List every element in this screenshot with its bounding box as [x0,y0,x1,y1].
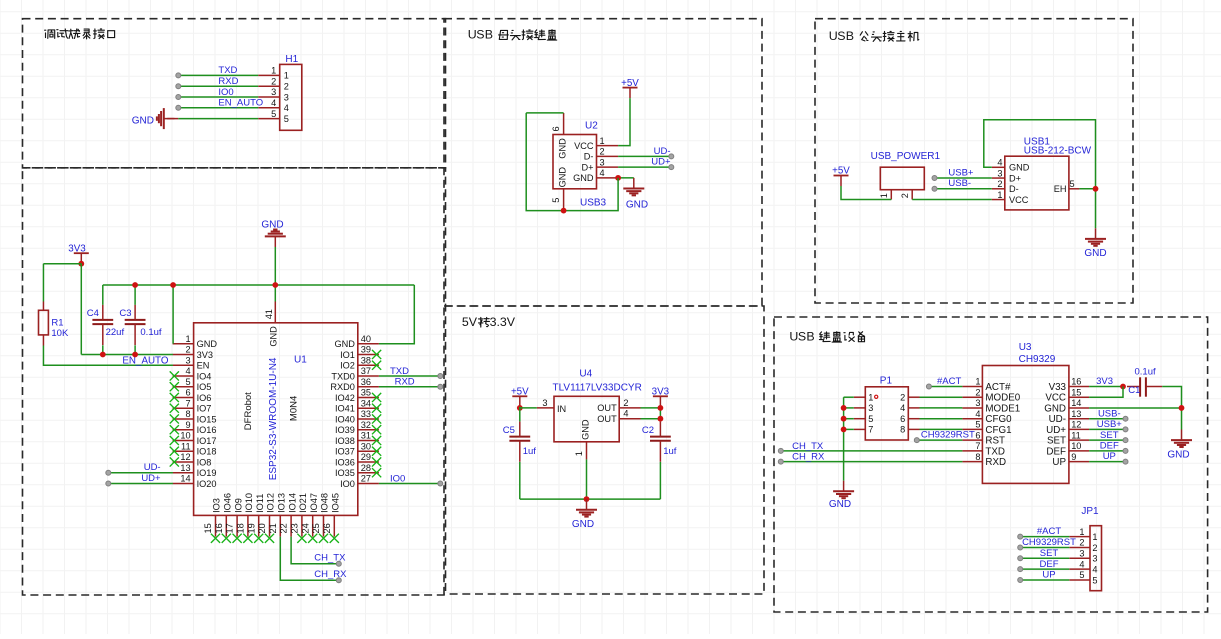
svg-text:USB-: USB- [1098,408,1121,419]
svg-text:IO0: IO0 [390,473,405,484]
svg-text:RXD: RXD [985,457,1006,468]
svg-text:USB3: USB3 [580,198,607,209]
svg-text:2: 2 [271,76,276,86]
svg-text:6: 6 [185,388,190,398]
svg-text:6: 6 [900,414,905,424]
svg-text:3: 3 [284,92,289,102]
svg-text:0.1uf: 0.1uf [140,327,161,338]
svg-text:2: 2 [600,147,605,157]
svg-text:IO20: IO20 [197,479,217,489]
svg-text:11: 11 [1071,430,1081,440]
svg-text:24: 24 [300,523,310,533]
svg-text:TLV1117LV33DCYR: TLV1117LV33DCYR [553,383,642,394]
svg-text:5: 5 [185,377,190,387]
svg-text:C4: C4 [87,308,99,319]
svg-text:35: 35 [361,388,371,398]
svg-text:1: 1 [879,193,889,198]
svg-text:12: 12 [1071,420,1081,430]
svg-text:IO48: IO48 [320,493,330,513]
svg-text:IO7: IO7 [197,404,212,414]
svg-text:IO14: IO14 [287,493,297,513]
svg-text:EH: EH [1054,184,1067,194]
svg-text:38: 38 [361,355,371,365]
svg-text:GND: GND [558,138,568,159]
svg-text:IO35: IO35 [335,468,355,478]
svg-text:USB-: USB- [948,178,971,189]
svg-text:10K: 10K [51,328,69,339]
svg-text:IO46: IO46 [223,493,233,513]
svg-text:SET: SET [1040,548,1059,559]
svg-text:UD+: UD+ [651,157,671,168]
svg-text:3: 3 [185,355,190,365]
svg-text:VCC: VCC [1009,195,1029,205]
svg-text:4: 4 [284,103,289,113]
svg-text:1: 1 [600,136,605,146]
svg-text:CH_RX: CH_RX [792,452,825,463]
svg-text:GND: GND [829,499,851,510]
svg-text:2: 2 [975,387,980,397]
svg-text:GND: GND [261,220,283,231]
svg-text:9: 9 [1071,452,1076,462]
svg-text:U2: U2 [585,121,598,132]
svg-text:5: 5 [551,198,561,203]
svg-text:CH_RX: CH_RX [314,569,347,580]
svg-text:UD+: UD+ [1046,425,1066,436]
svg-text:V: V [507,315,516,329]
svg-text:4: 4 [1092,564,1097,574]
svg-text:21: 21 [268,523,278,533]
svg-text:7: 7 [868,425,873,435]
svg-text:DFRobot: DFRobot [243,392,254,430]
svg-text:10: 10 [1071,441,1081,451]
svg-text:P1: P1 [880,375,893,386]
svg-text:7: 7 [185,398,190,408]
svg-text:CH_TX: CH_TX [792,441,824,452]
svg-text:IO36: IO36 [335,457,355,467]
svg-text:37: 37 [361,366,371,376]
svg-text:MODE1: MODE1 [985,403,1020,414]
svg-text:OUT: OUT [597,414,617,424]
svg-text:3: 3 [271,87,276,97]
svg-text:UP: UP [1042,570,1055,581]
svg-text:IN: IN [557,404,566,414]
svg-text:IO17: IO17 [197,436,217,446]
svg-text:CH9329RST: CH9329RST [1022,537,1076,548]
svg-text:+5V: +5V [511,387,529,398]
svg-text:GND: GND [572,519,594,530]
svg-text:28: 28 [361,463,371,473]
svg-text:9: 9 [185,420,190,430]
svg-text:IO38: IO38 [335,436,355,446]
svg-text:GND: GND [197,339,218,349]
svg-text:GND: GND [334,339,355,349]
svg-text:2: 2 [284,82,289,92]
svg-text:SET: SET [1100,430,1119,441]
svg-text:5: 5 [271,109,276,119]
svg-text:14: 14 [1071,398,1081,408]
svg-text:3V3: 3V3 [1096,376,1113,387]
svg-text:TXD0: TXD0 [331,371,355,381]
svg-text:5: 5 [1092,575,1097,585]
svg-text:3: 3 [1079,549,1084,559]
svg-text:3: 3 [997,168,1002,178]
svg-text:GND: GND [268,326,278,347]
svg-text:2: 2 [623,398,628,408]
svg-text:M0N4: M0N4 [289,396,300,421]
svg-text:U1: U1 [294,355,307,366]
svg-text:1: 1 [975,377,980,387]
svg-text:IO0: IO0 [340,479,355,489]
svg-text:GND: GND [573,173,594,183]
svg-text:RXD: RXD [395,377,415,388]
svg-text:UD-: UD- [144,462,161,473]
svg-text:2: 2 [185,345,190,355]
svg-text:TXD: TXD [985,446,1005,457]
svg-text:30: 30 [361,441,371,451]
svg-text:C1: C1 [1128,385,1140,396]
svg-text:IO39: IO39 [335,425,355,435]
svg-text:4: 4 [1079,559,1084,569]
svg-text:UD-: UD- [1049,414,1066,425]
svg-text:3: 3 [1092,554,1097,564]
svg-text:IO15: IO15 [197,414,217,424]
svg-text:39: 39 [361,345,371,355]
svg-text:DEF: DEF [1100,440,1119,451]
svg-text:0.1uf: 0.1uf [1135,366,1156,377]
svg-text:IO45: IO45 [331,493,341,513]
svg-text:16: 16 [214,523,224,533]
svg-text:H1: H1 [285,54,298,65]
svg-text:TXD: TXD [218,65,237,76]
svg-text:8: 8 [975,452,980,462]
svg-text:USB_POWER1: USB_POWER1 [871,151,941,162]
svg-text:40: 40 [361,334,371,344]
svg-text:#ACT: #ACT [937,376,961,387]
svg-text:C3: C3 [119,308,131,319]
svg-text:5: 5 [975,420,980,430]
svg-text:2: 2 [997,179,1002,189]
svg-text:UP: UP [1103,451,1116,462]
svg-text:36: 36 [361,377,371,387]
svg-text:GND: GND [581,419,591,440]
svg-text:VCC: VCC [574,141,594,151]
svg-text:RST: RST [985,436,1005,447]
svg-text:IO12: IO12 [266,493,276,513]
svg-text:31: 31 [361,431,371,441]
svg-text:D-: D- [584,152,594,162]
svg-text:4: 4 [623,409,628,419]
svg-text:IO42: IO42 [335,393,355,403]
svg-text:1: 1 [1079,527,1084,537]
svg-text:IO10: IO10 [244,493,254,513]
svg-text:IO2: IO2 [340,361,355,371]
svg-text:3V3: 3V3 [68,243,86,254]
svg-text:3: 3 [868,403,873,413]
svg-text:29: 29 [361,452,371,462]
svg-text:1: 1 [185,334,190,344]
svg-text:IO18: IO18 [197,447,217,457]
svg-text:26: 26 [322,523,332,533]
svg-text:5: 5 [284,114,289,124]
svg-text:GND: GND [1044,403,1066,414]
svg-text:3: 3 [542,398,547,408]
svg-text:D+: D+ [581,162,593,172]
svg-text:IO11: IO11 [255,494,265,513]
svg-text:4: 4 [997,158,1002,168]
svg-text:10: 10 [180,431,190,441]
svg-text:IO8: IO8 [197,457,212,467]
svg-text:2: 2 [1079,538,1084,548]
svg-text:15: 15 [203,523,213,533]
svg-text:B: B [485,28,493,42]
svg-text:RXD: RXD [218,76,238,87]
svg-text:4: 4 [271,98,276,108]
svg-text:3V3: 3V3 [197,350,213,360]
svg-text:USB-212-BCW: USB-212-BCW [1024,146,1092,157]
svg-text:MODE0: MODE0 [985,393,1020,404]
svg-text:CH9329RST: CH9329RST [921,430,975,441]
svg-text:C2: C2 [642,425,654,436]
svg-text:IO4: IO4 [197,371,212,381]
svg-text:CH9329: CH9329 [1019,354,1056,365]
svg-text:VCC: VCC [1045,393,1066,404]
svg-text:GND: GND [1167,450,1189,461]
svg-text:ESP32-S3-WROOM-1U-N4: ESP32-S3-WROOM-1U-N4 [268,357,279,480]
svg-text:S: S [476,28,484,42]
svg-text:CFG0: CFG0 [985,414,1012,425]
svg-text:1uf: 1uf [523,446,537,457]
svg-text:IO40: IO40 [335,414,355,424]
svg-text:2: 2 [1092,543,1097,553]
svg-text:4: 4 [975,409,980,419]
svg-text:GND: GND [1009,163,1030,173]
svg-text:4: 4 [900,403,905,413]
svg-text:GND: GND [626,200,648,211]
svg-text:41: 41 [264,309,274,319]
svg-text:IO21: IO21 [298,493,308,513]
svg-text:IO37: IO37 [335,447,355,457]
svg-text:1uf: 1uf [663,446,677,457]
svg-text:23: 23 [290,523,300,533]
svg-text:UP: UP [1052,457,1066,468]
svg-text:19: 19 [246,523,256,533]
svg-text:IO9: IO9 [233,498,243,513]
svg-text:6: 6 [975,430,980,440]
svg-text:IO19: IO19 [197,468,217,478]
svg-text:8: 8 [900,425,905,435]
svg-text:ACT#: ACT# [985,382,1011,393]
svg-text:6: 6 [551,126,561,131]
svg-text:17: 17 [225,523,235,533]
svg-text:GND: GND [1084,248,1106,259]
svg-text:+5V: +5V [832,166,850,177]
svg-text:S: S [798,330,806,344]
svg-text:3V3: 3V3 [652,387,670,398]
svg-text:U4: U4 [579,369,592,380]
svg-text:IO13: IO13 [277,493,287,513]
svg-text:CH_TX: CH_TX [314,553,346,564]
svg-text:20: 20 [257,523,267,533]
svg-text:1: 1 [574,451,584,456]
svg-text:OUT: OUT [597,403,617,413]
svg-text:1: 1 [271,66,276,76]
svg-text:C5: C5 [503,425,515,436]
svg-text:13: 13 [180,463,190,473]
svg-text:EN_AUTO: EN_AUTO [122,356,168,367]
svg-text:3: 3 [600,157,605,167]
svg-text:USB+: USB+ [948,167,974,178]
svg-text:UD+: UD+ [141,473,161,484]
svg-text:5: 5 [1070,179,1075,189]
svg-text:U3: U3 [1019,342,1032,353]
svg-text:D-: D- [1009,184,1019,194]
svg-text:16: 16 [1071,377,1081,387]
svg-text:DEF: DEF [1040,559,1059,570]
svg-text:33: 33 [361,409,371,419]
svg-text:5: 5 [1079,570,1084,580]
svg-text:2: 2 [900,193,910,198]
svg-text:IO1: IO1 [340,350,355,360]
svg-text:IO5: IO5 [197,382,212,392]
svg-text:13: 13 [1071,409,1081,419]
svg-text:DEF: DEF [1046,446,1066,457]
svg-text:UD-: UD- [654,146,671,157]
svg-text:4: 4 [185,366,190,376]
svg-text:8: 8 [185,409,190,419]
svg-text:1: 1 [997,190,1002,200]
svg-text:1: 1 [1092,532,1097,542]
svg-text:25: 25 [311,523,321,533]
svg-text:34: 34 [361,398,371,408]
svg-text:#ACT: #ACT [1037,526,1061,537]
svg-text:USB+: USB+ [1097,419,1123,430]
svg-text:2: 2 [900,393,905,403]
svg-text:GND: GND [132,116,154,127]
svg-text:B: B [846,29,854,43]
svg-text:18: 18 [236,523,246,533]
svg-text:IO3: IO3 [212,498,222,513]
svg-text:1: 1 [284,71,289,81]
svg-text:+5V: +5V [621,78,639,89]
svg-text:SET: SET [1047,436,1066,447]
svg-text:14: 14 [180,474,190,484]
svg-text:4: 4 [600,168,605,178]
svg-text:IO16: IO16 [197,425,217,435]
svg-text:5: 5 [868,414,873,424]
svg-text:22: 22 [279,523,289,533]
svg-text:IO47: IO47 [309,493,319,513]
svg-text:32: 32 [361,420,371,430]
svg-text:3: 3 [975,398,980,408]
svg-text:IO0: IO0 [218,87,233,98]
svg-text:IO6: IO6 [197,393,212,403]
svg-text:EN: EN [197,361,210,371]
svg-text:V33: V33 [1049,382,1067,393]
svg-text:22uf: 22uf [106,327,125,338]
svg-text:12: 12 [180,452,190,462]
svg-text:TXD: TXD [390,366,409,377]
svg-text:RXD0: RXD0 [330,382,355,392]
svg-text:JP1: JP1 [1081,506,1099,517]
svg-text:11: 11 [181,441,191,451]
svg-text:S: S [837,29,845,43]
svg-text:D+: D+ [1009,173,1021,183]
svg-text:7: 7 [975,441,980,451]
svg-text:15: 15 [1071,387,1081,397]
svg-text:B: B [806,330,814,344]
svg-text:IO41: IO41 [335,404,355,414]
svg-text:27: 27 [361,474,371,484]
svg-text:V: V [469,315,478,329]
svg-text:GND: GND [558,167,568,188]
svg-text:CFG1: CFG1 [985,425,1011,436]
svg-text:1: 1 [868,393,873,403]
svg-text:EN_AUTO: EN_AUTO [218,98,263,109]
